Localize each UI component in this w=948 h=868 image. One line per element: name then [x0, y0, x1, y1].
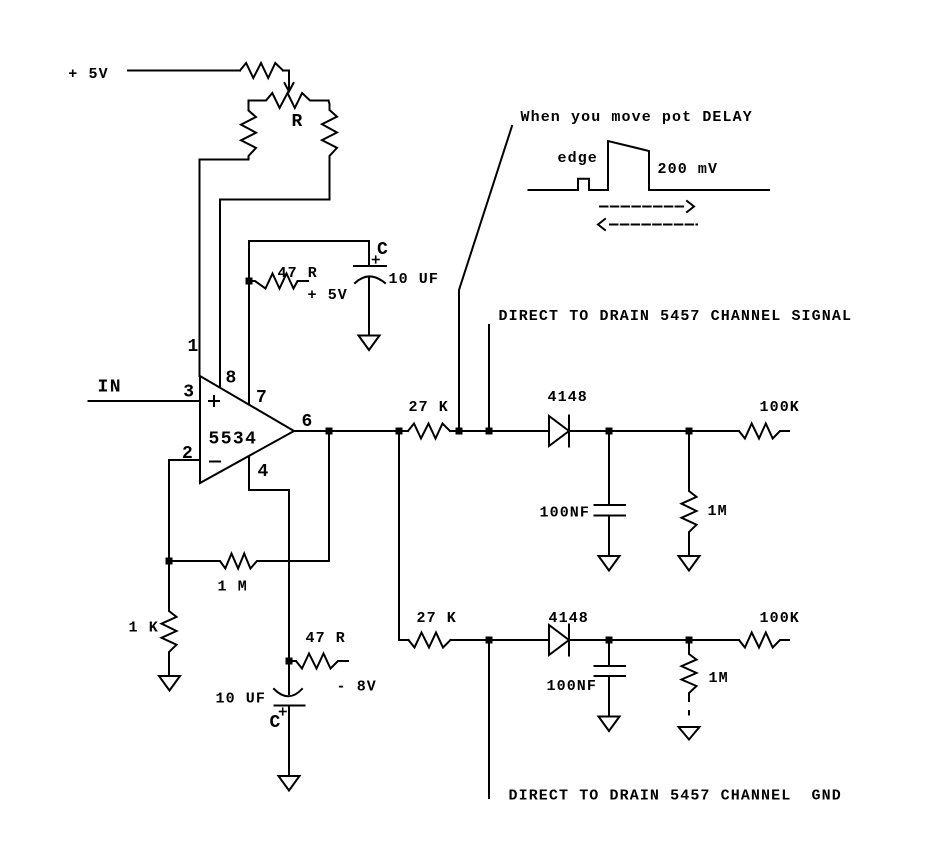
pot left branch to pin 1 [200, 101, 257, 377]
capacitor C 10UF (lower) curved plate [274, 689, 302, 696]
svg-text:4148: 4148 [549, 610, 589, 627]
svg-text:1 M: 1 M [218, 579, 248, 596]
ground (100NF lower) [599, 717, 620, 732]
svg-text:10 UF: 10 UF [389, 271, 440, 288]
svg-text:DIRECT TO DRAIN 5457 CHANNEL: DIRECT TO DRAIN 5457 CHANNEL GND [509, 788, 842, 805]
junction pin7/47R [246, 278, 253, 285]
junction signal-label wire [486, 428, 493, 435]
svg-text:- 8V: - 8V [337, 679, 377, 696]
wire from SIGNAL label to output [488, 325, 490, 431]
svg-text:47 R: 47 R [306, 630, 346, 647]
plus mark (lower cap) [280, 708, 287, 715]
wire top of 47R loop [249, 240, 369, 242]
waveform pulse drawing [529, 141, 770, 190]
wire pin 4 down to 47R junction [249, 457, 289, 662]
svg-text:27 K: 27 K [417, 610, 457, 627]
svg-text:8: 8 [226, 369, 238, 389]
resistor 47 R (upper) [249, 274, 308, 289]
junction pin2/1M/1K [166, 558, 173, 565]
diode 4148 (lower) [549, 625, 569, 656]
junction pin4 wire/47R/cap [286, 658, 293, 665]
wire 100NF to ground (lower) [608, 676, 610, 717]
wire lower cap to ground [288, 706, 290, 777]
wire pin 2 down [169, 460, 200, 561]
wire output down to lower channel [399, 431, 409, 640]
capacitor 100NF (upper) bottom plate [595, 515, 626, 517]
svg-text:R: R [292, 112, 304, 132]
wire to 100NF (lower) [608, 640, 610, 666]
wire stub above ground (1M lower) [688, 711, 690, 715]
svg-text:1M: 1M [708, 503, 728, 520]
svg-text:100NF: 100NF [547, 678, 598, 695]
svg-text:10 UF: 10 UF [216, 691, 267, 708]
svg-text:47 R: 47 R [278, 265, 318, 282]
capacitor C 10UF top plate [354, 265, 386, 267]
dashed arrow left [598, 219, 697, 230]
resistor 1 K to ground [162, 561, 177, 676]
svg-text:200 mV: 200 mV [658, 161, 719, 178]
junction 1M (lower) [686, 637, 693, 644]
wire to pot wiper arrow [283, 71, 289, 91]
svg-text:100K: 100K [760, 610, 800, 627]
wire diode to 100K [569, 430, 739, 432]
plus input mark [209, 396, 219, 406]
svg-text:+ 5V: + 5V [68, 66, 108, 83]
svg-text:27 K: 27 K [409, 399, 449, 416]
resistor top (+5V series) [240, 63, 283, 78]
ground (1M upper) [679, 556, 700, 571]
junction output/1M [326, 428, 333, 435]
svg-text:+ 5V: + 5V [308, 287, 348, 304]
wire to 100NF (upper) [608, 431, 610, 505]
capacitor 100NF (lower) bottom plate [595, 675, 626, 677]
svg-text:When you move pot DELAY: When you move pot DELAY [521, 109, 753, 126]
ground (1M lower) [679, 727, 700, 740]
wire pin7 vertical [248, 241, 250, 405]
svg-text:100NF: 100NF [540, 505, 591, 522]
capacitor 100NF (upper) top plate [595, 504, 626, 506]
ground (100NF upper) [599, 556, 620, 571]
svg-text:1 K: 1 K [129, 620, 159, 637]
resistor 1M (lower) [682, 640, 697, 701]
wire input to pin 3 [89, 400, 201, 402]
svg-text:C: C [270, 713, 282, 733]
junction 100NF (lower) [606, 637, 613, 644]
pot right branch to pin 8 [220, 101, 337, 388]
svg-text:1: 1 [188, 337, 200, 357]
svg-text:4: 4 [258, 462, 270, 482]
dashed arrow right [600, 201, 694, 212]
svg-text:7: 7 [256, 388, 268, 408]
ground (upper cap) [359, 336, 380, 351]
minus input mark [210, 461, 220, 463]
wire to cap C top [368, 241, 370, 266]
wire junction to lower cap [288, 661, 290, 694]
capacitor C 10UF curved plate [355, 276, 385, 283]
pot wiper arrowhead [285, 83, 294, 92]
junction 100NF (upper) [606, 428, 613, 435]
wire from lower channel to GND label [488, 640, 490, 798]
capacitor 100NF (lower) top plate [595, 665, 626, 667]
svg-text:1M: 1M [709, 670, 729, 687]
resistor 100K (lower) [739, 633, 789, 648]
op-amp U1 5534 triangle [200, 376, 294, 483]
svg-text:edge: edge [558, 150, 598, 167]
wire 100NF to ground [608, 516, 610, 557]
resistor 27 K (upper) [408, 424, 450, 439]
capacitor C 10UF (lower) straight plate [275, 705, 305, 707]
wire diode to 100K (lower) [569, 639, 739, 641]
svg-text:4148: 4148 [548, 389, 588, 406]
svg-text:6: 6 [302, 412, 314, 432]
svg-text:IN: IN [98, 378, 122, 398]
wire cap to ground [368, 277, 370, 336]
resistor 100K (upper) [739, 424, 789, 439]
junction gnd-label wire [486, 637, 493, 644]
diode 4148 (upper) [549, 416, 569, 447]
ground (lower cap) [279, 776, 300, 791]
junction delay-note wire [456, 428, 463, 435]
resistor 27 K (lower) [409, 633, 451, 648]
svg-text:3: 3 [183, 383, 195, 403]
potentiometer R body [249, 93, 329, 108]
wire 27K to diode [450, 430, 549, 432]
wire 27K to diode (lower) [451, 639, 550, 641]
resistor 47 R (lower) [289, 654, 348, 669]
wire pointer from DELAY note to output [459, 126, 512, 431]
svg-text:C: C [377, 240, 389, 260]
svg-text:DIRECT TO DRAIN 5457 CHANNEL S: DIRECT TO DRAIN 5457 CHANNEL SIGNAL [499, 308, 853, 325]
wire +5V to resistor [128, 70, 240, 72]
wire op-amp output [294, 430, 408, 432]
junction output/lower-channel branch [396, 428, 403, 435]
resistor 1M (upper) to ground [682, 431, 697, 556]
resistor 1 M feedback + wire up to output [169, 431, 329, 569]
plus mark (upper cap) [373, 256, 380, 263]
svg-text:100K: 100K [760, 399, 800, 416]
ground (1K) [159, 676, 180, 691]
junction 1M (upper) [686, 428, 693, 435]
svg-text:5534: 5534 [209, 430, 258, 450]
